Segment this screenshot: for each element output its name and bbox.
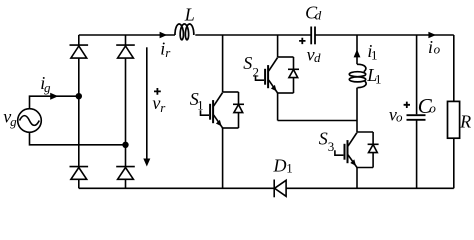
arrow io [428, 32, 436, 38]
arrow i1 [354, 49, 361, 57]
wire right edge [453, 35, 455, 188]
label io [428, 37, 441, 57]
svg-text:L: L [184, 4, 195, 24]
igbt S3 [335, 133, 357, 168]
wire S2 branch lower [277, 93, 279, 121]
antiparallel diode of S2 [278, 57, 299, 93]
svg-text:S: S [243, 53, 252, 73]
svg-text:r: r [160, 100, 166, 115]
svg-text:o: o [429, 100, 436, 115]
label ir [160, 39, 171, 61]
diode D1 [274, 180, 286, 198]
arrow ir [160, 32, 168, 38]
svg-text:g: g [44, 80, 51, 95]
label plus Cd [299, 38, 305, 44]
label ig [40, 73, 51, 95]
svg-text:1: 1 [375, 71, 382, 86]
svg-text:g: g [10, 114, 17, 129]
antiparallel diode of S1 [223, 92, 244, 128]
igbt S2 [256, 58, 278, 94]
igbt S1 [201, 93, 223, 129]
svg-text:r: r [165, 45, 171, 60]
wire top rail [79, 34, 454, 36]
wire bridge left leg [78, 35, 80, 188]
label vo [389, 104, 403, 124]
svg-text:d: d [315, 8, 322, 23]
svg-text:2: 2 [252, 65, 259, 80]
label Co [418, 94, 437, 118]
wire S1 branch lower [222, 128, 224, 188]
wire S2 branch upper [277, 35, 279, 57]
wire Co branch lower [416, 120, 418, 189]
wire source bottom [30, 132, 126, 145]
label S3 [319, 129, 335, 154]
wire S1 branch upper [222, 35, 224, 92]
capacitor Cd [311, 27, 315, 45]
label vr [152, 93, 166, 115]
label L1 [366, 65, 381, 86]
ac source vg [18, 109, 42, 133]
label S2 [243, 53, 259, 79]
svg-text:S: S [319, 129, 328, 149]
wire source top [30, 96, 79, 109]
svg-text:D: D [273, 156, 287, 176]
label vg [3, 107, 17, 129]
resistor R [448, 101, 460, 138]
wire L1 branch lower [356, 88, 358, 121]
svg-text:1: 1 [371, 47, 378, 62]
wire S2 to junction [278, 120, 357, 122]
wire Co branch upper [416, 35, 418, 114]
wire S3 branch upper [356, 121, 358, 133]
diode bridge lower-left [70, 167, 89, 180]
svg-text:1: 1 [286, 161, 293, 176]
wire bottom rail [79, 187, 454, 189]
inductor L1 [349, 64, 366, 87]
label vd [307, 45, 321, 65]
inductor L [175, 24, 194, 40]
svg-text:d: d [314, 50, 321, 65]
svg-text:R: R [459, 112, 471, 132]
wire S3 branch lower [356, 168, 358, 189]
wire bridge right leg [125, 35, 127, 188]
label D1 [273, 156, 293, 176]
arrow vr [143, 47, 150, 166]
label i1 [367, 41, 377, 62]
diode bridge upper-left [70, 45, 89, 58]
svg-text:v: v [152, 93, 160, 113]
svg-text:3: 3 [328, 139, 335, 154]
svg-text:o: o [434, 42, 441, 57]
label plus Co [404, 102, 410, 108]
antiparallel diode of S3 [357, 132, 379, 168]
diode bridge upper-right [116, 45, 135, 58]
label S1 [190, 89, 204, 113]
arrow ig [50, 93, 58, 100]
wire L1 branch upper [356, 35, 358, 64]
svg-text:1: 1 [197, 98, 204, 113]
capacitor Co [407, 115, 426, 120]
node dot left leg [76, 93, 82, 99]
label plus vr [154, 88, 161, 95]
diode bridge lower-right [116, 167, 135, 180]
svg-text:i: i [428, 37, 433, 57]
svg-text:o: o [396, 110, 403, 125]
node dot right leg [122, 142, 128, 148]
label Cd [305, 3, 322, 23]
